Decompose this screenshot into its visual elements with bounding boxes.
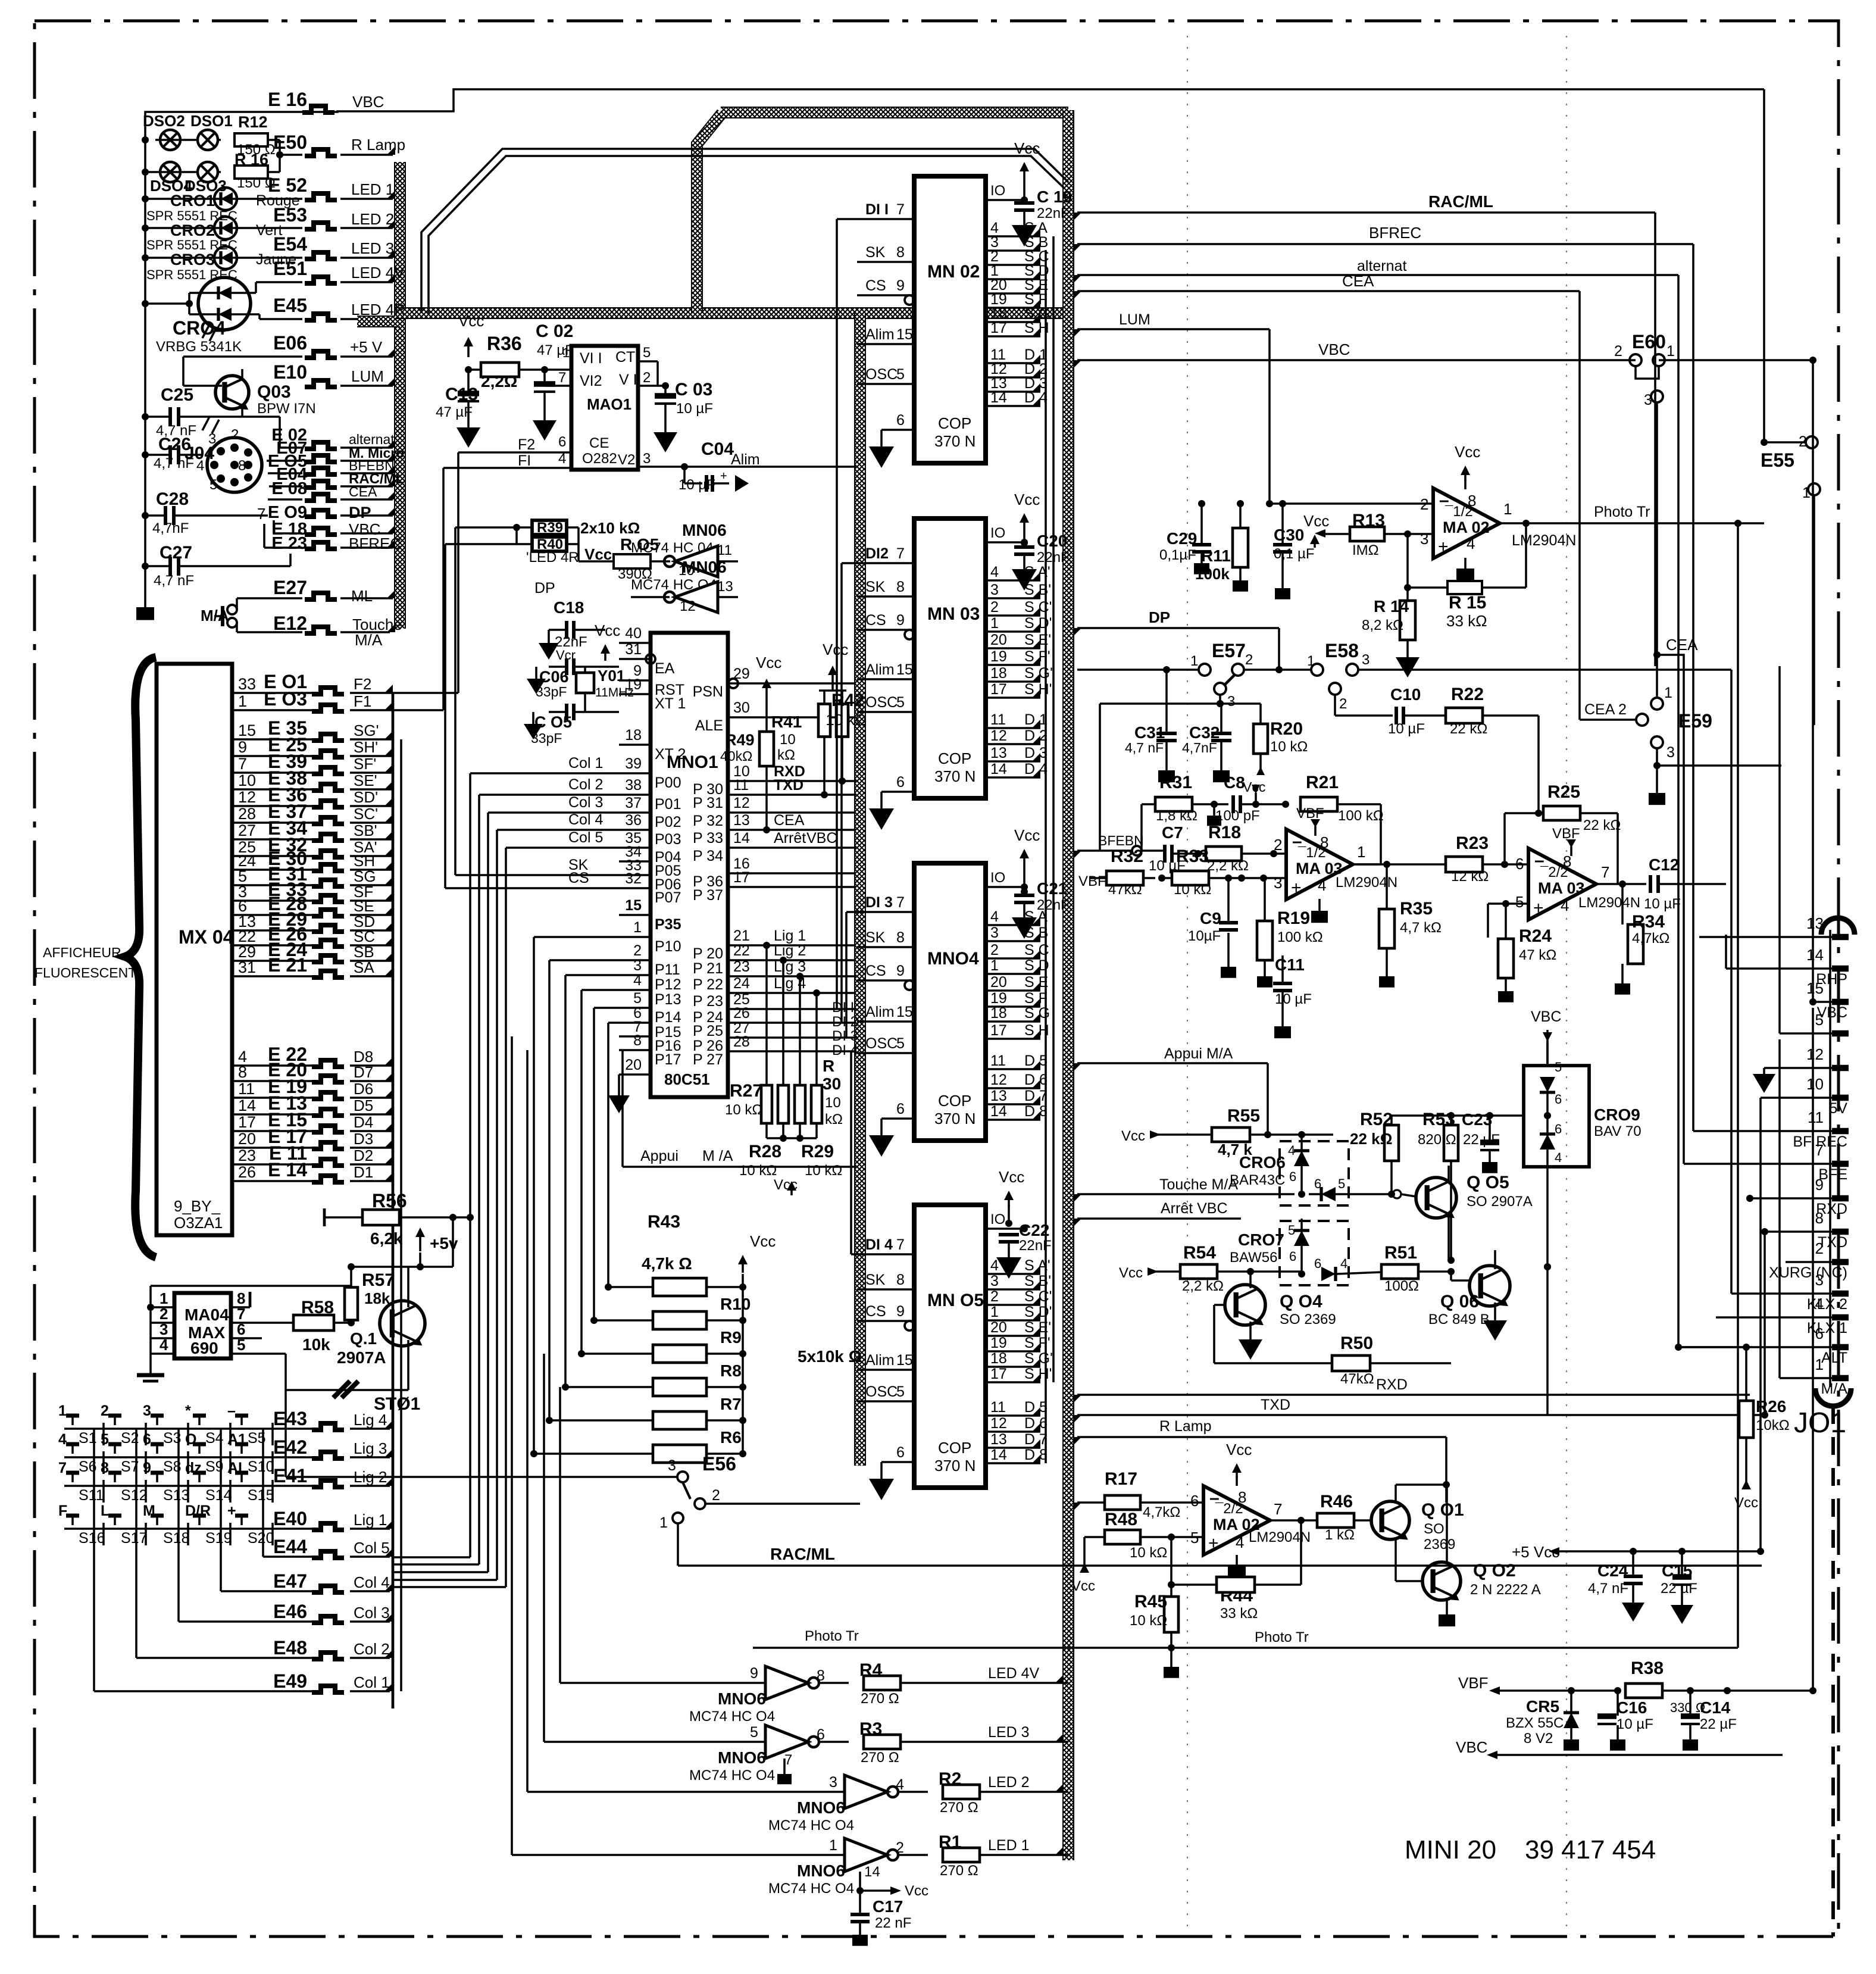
- svg-text:CEA: CEA: [1666, 636, 1698, 654]
- svg-text:11: 11: [733, 777, 749, 794]
- svg-text:BAW56: BAW56: [1230, 1250, 1277, 1266]
- svg-text:4,7k Ω: 4,7k Ω: [642, 1254, 692, 1273]
- svg-text:7: 7: [558, 370, 566, 386]
- svg-text:10 kΩ: 10 kΩ: [1130, 1545, 1167, 1561]
- wire Q1 emitter to ST01: [407, 1363, 409, 1390]
- svg-text:S10: S10: [248, 1458, 274, 1475]
- wire MA03a out: [1353, 863, 1446, 866]
- wire R31 loop: [1140, 804, 1143, 851]
- svg-text:E47: E47: [273, 1570, 307, 1592]
- svg-text:P 37: P 37: [693, 887, 723, 904]
- svg-text:11: 11: [238, 1080, 255, 1098]
- capacitor C21: [1020, 849, 1029, 858]
- svg-text:5: 5: [101, 1431, 109, 1448]
- svg-text:11: 11: [990, 1399, 1006, 1416]
- ground C02: [543, 405, 546, 420]
- svg-text:270 Ω: 270 Ω: [940, 1800, 978, 1816]
- svg-text:E 14: E 14: [268, 1159, 307, 1180]
- svg-text:5: 5: [643, 345, 651, 361]
- svg-text:10 kΩ: 10 kΩ: [1130, 1613, 1167, 1629]
- svg-text:P10: P10: [655, 938, 681, 955]
- svg-text:7: 7: [238, 755, 247, 773]
- transistor Q06: [1469, 1266, 1510, 1306]
- svg-text:9: 9: [896, 963, 905, 979]
- wire bus RHP: [1725, 884, 1727, 969]
- svg-text:R10: R10: [720, 1295, 751, 1313]
- led CRO2: [214, 217, 237, 239]
- svg-text:D2: D2: [354, 1147, 373, 1164]
- svg-text:12: 12: [733, 795, 750, 811]
- svg-text:2: 2: [712, 1487, 720, 1504]
- svg-text:3: 3: [990, 582, 999, 598]
- svg-text:SD': SD': [354, 788, 378, 806]
- svg-text:S19: S19: [205, 1530, 232, 1547]
- svg-text:Vcc: Vcc: [756, 654, 781, 671]
- wire col net x850: [506, 847, 619, 849]
- wire Q05 base: [1401, 1194, 1416, 1197]
- wire col net x790: [470, 772, 619, 774]
- wire CRO2: [145, 227, 214, 229]
- svg-text:33: 33: [238, 675, 256, 693]
- wire top right rail: [1580, 88, 1764, 90]
- svg-text:OSC: OSC: [865, 694, 898, 711]
- svg-text:Col 2: Col 2: [354, 1640, 390, 1658]
- svg-text:E51: E51: [273, 258, 307, 279]
- svg-text:DP: DP: [534, 580, 555, 596]
- svg-text:1: 1: [990, 957, 999, 974]
- svg-text:R41: R41: [771, 713, 802, 731]
- wire array net x923: [549, 959, 619, 961]
- svg-text:4,7kΩ: 4,7kΩ: [1632, 930, 1669, 947]
- svg-text:690: 690: [190, 1339, 218, 1357]
- svg-text:DI 4: DI 4: [865, 1236, 893, 1253]
- svg-text:C04: C04: [701, 439, 734, 459]
- svg-text:DP: DP: [349, 504, 371, 521]
- svg-text:22 kΩ: 22 kΩ: [1450, 721, 1487, 737]
- svg-text:26: 26: [733, 1005, 750, 1022]
- svg-text:S18: S18: [163, 1530, 189, 1547]
- svg-text:Lig 4: Lig 4: [354, 1411, 387, 1429]
- box MX04 display driver: [157, 664, 232, 1235]
- svg-text:47 kΩ: 47 kΩ: [1519, 947, 1556, 963]
- svg-text:DP: DP: [1149, 608, 1170, 626]
- svg-text:Col 4: Col 4: [354, 1573, 390, 1591]
- svg-text:KLX 2: KLX 2: [1807, 1296, 1847, 1313]
- svg-text:18: 18: [625, 727, 642, 744]
- svg-text:JO1: JO1: [1794, 1407, 1846, 1439]
- svg-text:2: 2: [1339, 696, 1347, 712]
- svg-text:9: 9: [896, 612, 905, 629]
- wire DI2 net: [840, 563, 843, 1023]
- wire Q01 collector: [1395, 1485, 1397, 1504]
- svg-text:LED 4R: LED 4R: [351, 301, 405, 318]
- svg-text:R29: R29: [801, 1142, 834, 1161]
- svg-text:5V: 5V: [1829, 1100, 1847, 1117]
- svg-text:Q03: Q03: [257, 382, 291, 402]
- svg-text:P07: P07: [655, 889, 681, 906]
- svg-text:2,2 kΩ: 2,2 kΩ: [1182, 1278, 1224, 1294]
- svg-text:2,2 kΩ: 2,2 kΩ: [1207, 858, 1249, 874]
- svg-text:SH': SH': [354, 738, 378, 756]
- svg-text:Col 2: Col 2: [568, 776, 603, 793]
- svg-text:10µF: 10µF: [1188, 928, 1221, 944]
- wire MA03b plus: [1488, 902, 1528, 905]
- svg-text:15: 15: [1806, 979, 1824, 997]
- svg-text:10 kΩ: 10 kΩ: [739, 1163, 777, 1179]
- wire bus 13: [1699, 936, 1832, 938]
- wire RAC/ML top: [1077, 211, 1655, 214]
- svg-text:370 N: 370 N: [934, 1110, 975, 1127]
- svg-text:TXD: TXD: [1261, 1397, 1290, 1413]
- svg-text:Appui: Appui: [640, 1148, 679, 1164]
- svg-text:3: 3: [1362, 652, 1370, 668]
- wire array net x897: [534, 936, 619, 938]
- svg-text:SK: SK: [865, 244, 886, 261]
- svg-text:D1: D1: [354, 1163, 373, 1181]
- svg-text:2: 2: [990, 599, 999, 616]
- ground C06: [536, 666, 549, 667]
- svg-text:R57: R57: [362, 1270, 395, 1290]
- svg-text:8: 8: [896, 579, 905, 595]
- wires bank to pins: [765, 945, 768, 1085]
- svg-text:6,2k: 6,2k: [370, 1229, 403, 1248]
- svg-text:20: 20: [990, 1319, 1007, 1336]
- svg-text:3: 3: [990, 1273, 999, 1289]
- svg-text:12: 12: [990, 1415, 1007, 1432]
- connector J01 cable bottom: [1815, 1388, 1851, 1406]
- svg-text:Alim: Alim: [865, 1352, 895, 1369]
- svg-text:13: 13: [1806, 914, 1824, 932]
- svg-text:9_BY_: 9_BY_: [174, 1197, 221, 1215]
- svg-text:1 kΩ: 1 kΩ: [1325, 1527, 1355, 1543]
- svg-text:CT: CT: [615, 349, 635, 366]
- svg-text:MNO6: MNO6: [797, 1798, 845, 1817]
- svg-text:Photo Tr: Photo Tr: [1594, 504, 1650, 520]
- svg-text:LED 1: LED 1: [351, 180, 394, 198]
- svg-text:10k: 10k: [302, 1335, 330, 1354]
- svg-text:2: 2: [1245, 652, 1253, 668]
- svg-text:3: 3: [1274, 874, 1282, 892]
- svg-text:MC74 HC O4: MC74 HC O4: [768, 1881, 854, 1897]
- svg-text:MC74 HC O4: MC74 HC O4: [768, 1817, 854, 1834]
- svg-text:1: 1: [990, 615, 999, 632]
- wire bus KLX1: [1716, 1316, 1832, 1319]
- svg-text:C25: C25: [161, 385, 193, 405]
- wire bus 12: [1764, 1067, 1832, 1069]
- svg-text:4: 4: [633, 972, 642, 989]
- svg-text:ALT: ALT: [1821, 1350, 1847, 1366]
- svg-text:17: 17: [238, 1113, 256, 1131]
- svg-text:8 V2: 8 V2: [1524, 1731, 1553, 1747]
- svg-text:C30: C30: [1274, 526, 1304, 544]
- svg-text:R20: R20: [1270, 719, 1303, 739]
- svg-text:M/A: M/A: [355, 631, 383, 649]
- wire vert led3: [543, 1354, 545, 1742]
- svg-text:8: 8: [896, 244, 905, 261]
- svg-text:12: 12: [1806, 1045, 1824, 1063]
- svg-text:11MHz: 11MHz: [595, 686, 634, 699]
- svg-text:Col 5: Col 5: [354, 1539, 390, 1557]
- transistor Q02: [1422, 1562, 1461, 1600]
- supply Vcc MA01: [464, 337, 473, 346]
- keyboard row E43: [64, 1428, 265, 1430]
- svg-text:MNO6: MNO6: [797, 1861, 845, 1880]
- svg-text:R25: R25: [1547, 782, 1580, 802]
- resistor R14: [1400, 601, 1415, 640]
- resistor R24: [1498, 939, 1514, 978]
- svg-text:R35: R35: [1400, 899, 1433, 919]
- svg-text:10 kΩ: 10 kΩ: [725, 1102, 762, 1118]
- svg-text:2x10 kΩ: 2x10 kΩ: [580, 519, 640, 537]
- svg-text:12 kΩ: 12 kΩ: [1451, 869, 1489, 885]
- inverter MNO6 led2: [845, 1775, 887, 1809]
- svg-text:R54: R54: [1183, 1243, 1216, 1263]
- svg-text:10 µF: 10 µF: [679, 477, 715, 493]
- wire lamps row1: [155, 139, 198, 141]
- svg-text:Touche M/A: Touche M/A: [1159, 1176, 1238, 1193]
- svg-text:1: 1: [238, 692, 247, 710]
- connector J01 cable top: [1821, 918, 1855, 935]
- svg-text:39: 39: [625, 755, 642, 772]
- svg-text:MN 02: MN 02: [927, 262, 980, 282]
- svg-text:SK: SK: [865, 1272, 886, 1288]
- svg-text:MNO6: MNO6: [718, 1689, 766, 1708]
- photo arrows Q03: [202, 417, 210, 430]
- svg-text:Col 4: Col 4: [568, 811, 603, 828]
- svg-text:D3: D3: [354, 1130, 373, 1148]
- ground right mid: [1763, 1068, 1765, 1072]
- svg-text:R28: R28: [749, 1142, 781, 1161]
- wire E27 up: [236, 598, 238, 610]
- svg-text:4: 4: [1815, 1295, 1824, 1313]
- array resistor R8: [653, 1378, 706, 1396]
- svg-text:R9: R9: [720, 1328, 742, 1347]
- svg-text:15: 15: [896, 326, 913, 343]
- wire MA02b out: [1270, 1519, 1318, 1522]
- svg-text:LED 3: LED 3: [988, 1724, 1029, 1741]
- svg-text:3: 3: [668, 1457, 676, 1474]
- svg-text:23: 23: [238, 1147, 256, 1164]
- svg-text:E42: E42: [273, 1436, 307, 1458]
- svg-text:E59: E59: [1678, 710, 1712, 732]
- svg-text:TXD: TXD: [774, 777, 803, 794]
- ground MA02: [1464, 558, 1467, 569]
- svg-text:COP: COP: [938, 1092, 971, 1110]
- svg-text:4: 4: [1340, 1256, 1347, 1271]
- svg-text:38: 38: [625, 777, 642, 794]
- svg-text:7: 7: [1274, 1500, 1282, 1518]
- svg-text:M/A: M/A: [1821, 1380, 1848, 1397]
- svg-text:E46: E46: [273, 1601, 307, 1622]
- svg-text:1: 1: [1357, 843, 1365, 861]
- svg-text:S15: S15: [248, 1487, 274, 1504]
- svg-text:Col 1: Col 1: [568, 755, 603, 772]
- svg-text:R34: R34: [1632, 912, 1665, 932]
- svg-text:100 pF: 100 pF: [1215, 808, 1260, 824]
- svg-text:LM2904N: LM2904N: [1336, 874, 1397, 891]
- svg-text:21: 21: [733, 927, 750, 944]
- svg-text:1: 1: [1503, 500, 1512, 518]
- svg-text:CS: CS: [865, 612, 886, 629]
- svg-text:VBC: VBC: [352, 93, 384, 111]
- wire CS net: [445, 887, 619, 889]
- svg-text:'LED 4R: 'LED 4R: [526, 549, 579, 566]
- svg-text:P 32: P 32: [693, 813, 723, 829]
- ground MA02b: [1236, 1555, 1238, 1566]
- box MNO1 80C51: [651, 633, 728, 1097]
- svg-text:R51: R51: [1384, 1243, 1417, 1263]
- svg-text:6: 6: [558, 434, 566, 450]
- svg-text:S11: S11: [79, 1487, 104, 1504]
- svg-text:MN O5: MN O5: [927, 1291, 984, 1310]
- svg-text:S17: S17: [121, 1530, 147, 1547]
- svg-text:4,7 nF: 4,7 nF: [1125, 740, 1164, 755]
- transistor Q1: [380, 1301, 425, 1346]
- svg-text:VBF: VBF: [1078, 873, 1106, 889]
- led CRO4 dual: [198, 277, 251, 330]
- svg-text:E44: E44: [273, 1536, 307, 1557]
- supply +5v: [415, 1227, 425, 1237]
- svg-text:C11: C11: [1275, 955, 1305, 974]
- svg-text:11: 11: [990, 711, 1006, 728]
- svg-text:E56: E56: [702, 1453, 736, 1475]
- svg-text:CS: CS: [865, 1303, 886, 1320]
- wire vert led1: [511, 1036, 513, 1855]
- wire BFEBN right: [1077, 849, 1133, 852]
- diode pack CRO9: [1524, 1066, 1589, 1167]
- wire Q04 base left: [1214, 1304, 1225, 1306]
- svg-text:P 27: P 27: [693, 1051, 723, 1068]
- svg-text:4,7nF: 4,7nF: [152, 520, 189, 536]
- wire bus BFREC: [1693, 1130, 1832, 1132]
- svg-text:KLX 1: KLX 1: [1807, 1320, 1847, 1336]
- svg-text:8: 8: [896, 1272, 905, 1288]
- svg-text:26: 26: [238, 1163, 256, 1181]
- svg-text:Lig 1: Lig 1: [774, 927, 806, 944]
- wire Q04 collector: [1249, 1272, 1252, 1288]
- wire F2 from E01: [393, 692, 458, 694]
- svg-text:7: 7: [896, 545, 905, 562]
- svg-text:14: 14: [990, 1103, 1007, 1120]
- svg-text:P13: P13: [655, 991, 681, 1008]
- wire bus ALT: [1678, 1346, 1832, 1348]
- svg-text:5: 5: [750, 1724, 758, 1741]
- wire vert led4: [559, 1387, 561, 1683]
- svg-text:R12: R12: [238, 113, 268, 131]
- svg-text:12: 12: [990, 1072, 1007, 1088]
- wire bus 5V: [1761, 1097, 1832, 1099]
- svg-text:18: 18: [990, 1005, 1007, 1022]
- svg-text:14: 14: [864, 1864, 880, 1880]
- wire Q02 collector: [1446, 1485, 1448, 1564]
- svg-text:MX 04: MX 04: [179, 926, 234, 948]
- svg-text:6: 6: [1190, 1492, 1199, 1510]
- resistor R34: [1628, 924, 1643, 964]
- wire RAC/ML bottom: [583, 1565, 1762, 1566]
- svg-text:VBF: VBF: [1296, 805, 1324, 822]
- svg-text:Vcc: Vcc: [905, 1883, 928, 1899]
- svg-text:SG': SG': [354, 721, 379, 739]
- svg-text:22 µF: 22 µF: [1700, 1716, 1737, 1732]
- svg-text:100 kΩ: 100 kΩ: [1277, 929, 1323, 945]
- svg-text:1: 1: [1190, 653, 1198, 669]
- svg-text:7: 7: [896, 201, 905, 218]
- svg-text:F2: F2: [518, 436, 535, 453]
- wire VBC top: [1077, 359, 1636, 361]
- svg-text:DI 2: DI 2: [832, 1014, 858, 1030]
- svg-text:17: 17: [990, 1366, 1007, 1382]
- svg-text:E45: E45: [273, 295, 307, 316]
- svg-text:6: 6: [817, 1726, 825, 1743]
- svg-text:5: 5: [1338, 1176, 1345, 1191]
- supply Vcc MA02: [1461, 466, 1470, 475]
- svg-text:37: 37: [625, 795, 642, 811]
- svg-text:5x10k Ω: 5x10k Ω: [798, 1347, 862, 1366]
- svg-text:33 kΩ: 33 kΩ: [1446, 612, 1487, 630]
- svg-text:VBC: VBC: [806, 830, 837, 847]
- svg-text:11: 11: [1808, 1108, 1824, 1126]
- svg-text:E50: E50: [273, 132, 307, 153]
- wire lamp rail: [144, 140, 146, 607]
- svg-text:Col 3: Col 3: [568, 794, 603, 811]
- wire DI1 net: [836, 219, 838, 1009]
- svg-text:18k: 18k: [364, 1289, 390, 1307]
- svg-text:Lig 3: Lig 3: [774, 958, 806, 975]
- svg-text:10 kΩ: 10 kΩ: [1270, 739, 1308, 755]
- svg-text:6: 6: [1289, 1169, 1296, 1184]
- wire E16 VBC to top: [145, 89, 1580, 140]
- keyboard row E40: [64, 1528, 265, 1530]
- svg-text:+: +: [227, 1503, 236, 1519]
- shield bundle riser: [697, 113, 722, 313]
- wire col net x820: [488, 811, 619, 814]
- wire Q02 emitter: [1446, 1598, 1448, 1614]
- svg-text:E06: E06: [273, 332, 307, 354]
- svg-text:RAC/ML: RAC/ML: [770, 1545, 835, 1563]
- wire DI3 net: [845, 912, 848, 1038]
- wire bus RXD: [1750, 1197, 1832, 1200]
- svg-text:C 02: C 02: [536, 321, 573, 341]
- svg-text:C18: C18: [554, 598, 584, 617]
- svg-text:22: 22: [733, 942, 750, 959]
- svg-text:14: 14: [990, 389, 1007, 406]
- emission arrows CRO4: [202, 324, 210, 338]
- wire appui: [623, 1166, 856, 1168]
- svg-text:+: +: [1208, 1533, 1219, 1553]
- wire bus BFE: [1684, 1163, 1832, 1165]
- svg-text:R 14: R 14: [1374, 597, 1409, 616]
- svg-text:R 15: R 15: [1449, 593, 1486, 613]
- wire filter row: [1100, 702, 1261, 705]
- svg-text:+: +: [1533, 898, 1544, 918]
- svg-text:D7: D7: [354, 1063, 373, 1081]
- svg-text:R36: R36: [487, 333, 522, 354]
- svg-text:17: 17: [990, 681, 1007, 698]
- capacitor C22: [1004, 1191, 1014, 1200]
- wire CRO3: [145, 257, 214, 259]
- wire DP right: [1077, 627, 1279, 629]
- resistor R12: [234, 133, 268, 146]
- wire alternat loop: [279, 417, 281, 448]
- wire BFREC top: [1077, 243, 1693, 245]
- svg-text:E12: E12: [273, 613, 307, 634]
- svg-text:S12: S12: [121, 1487, 147, 1504]
- svg-text:P 34: P 34: [693, 848, 723, 864]
- svg-text:Vcc: Vcc: [1071, 1578, 1095, 1594]
- svg-text:8,2 kΩ: 8,2 kΩ: [1362, 617, 1403, 633]
- svg-text:VBF: VBF: [1552, 826, 1580, 842]
- wire bus XURG: [1786, 1261, 1832, 1263]
